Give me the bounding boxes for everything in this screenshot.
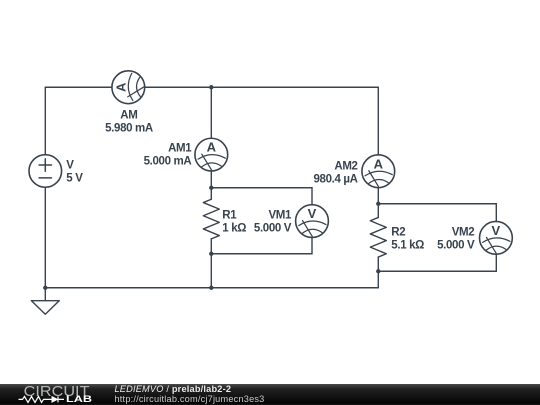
svg-text:1 kΩ: 1 kΩ — [222, 222, 246, 234]
svg-text:AM2: AM2 — [334, 160, 357, 172]
svg-text:A: A — [374, 156, 384, 171]
wire R1 top lead — [210, 188, 212, 200]
svg-text:980.4 µA: 980.4 µA — [313, 173, 357, 185]
wire VM1 loop top — [211, 188, 312, 205]
ammeter AM — [112, 71, 145, 104]
ground — [44, 288, 46, 301]
wire VM1 loop bottom — [211, 237, 312, 253]
wire R2 node to bottom rail — [377, 271, 379, 288]
svg-text:R1: R1 — [222, 209, 237, 221]
wire R1 bottom lead — [210, 239, 212, 254]
node dot below AM2 — [376, 202, 380, 206]
svg-text:A: A — [113, 82, 128, 92]
svg-text:R2: R2 — [391, 226, 405, 238]
svg-text:5.1 kΩ: 5.1 kΩ — [391, 239, 424, 251]
svg-text:AM: AM — [120, 109, 137, 121]
svg-text:5.000 V: 5.000 V — [254, 222, 292, 234]
voltmeter VM2 — [480, 221, 513, 254]
footer bar — [0, 384, 540, 405]
wire AM1 to node — [210, 171, 212, 188]
svg-text:VM2: VM2 — [452, 226, 475, 238]
wire left rail upper — [44, 87, 46, 154]
wire VM2 loop bottom — [378, 255, 496, 272]
wire R2 bottom lead — [377, 257, 379, 271]
wire node column lower — [210, 254, 212, 288]
wire bottom rail — [45, 287, 378, 289]
node dot below AM1 — [209, 186, 213, 190]
node dot R2 bottom — [376, 269, 380, 273]
svg-text:5 V: 5 V — [66, 172, 83, 184]
node dot bottom rail mid — [209, 286, 213, 290]
svg-text:A: A — [207, 140, 217, 155]
node dot R1 bottom — [209, 252, 213, 256]
svg-text:5.000 V: 5.000 V — [437, 239, 475, 251]
wire top rail right of AM — [145, 86, 379, 88]
svg-text:AM1: AM1 — [168, 142, 192, 154]
svg-text:5.980 mA: 5.980 mA — [105, 122, 153, 134]
circuitlab logo — [18, 384, 118, 405]
node dot top rail — [209, 85, 213, 89]
svg-text:V: V — [66, 159, 74, 171]
ammeter AM2 — [362, 155, 395, 188]
node dot bottom rail left — [43, 286, 47, 290]
svg-text:V: V — [492, 223, 501, 238]
svg-text:VM1: VM1 — [268, 209, 292, 221]
wire AM2 to node — [377, 188, 379, 204]
wire node column AM1 upper — [210, 87, 212, 138]
svg-text:5.000 mA: 5.000 mA — [144, 155, 192, 167]
svg-text:V: V — [308, 206, 317, 221]
voltage source V1 — [29, 155, 62, 188]
wire R2 top lead — [377, 204, 379, 218]
credit text — [115, 384, 265, 404]
wire VM2 loop top — [378, 204, 496, 222]
wire top rail left of AM — [45, 86, 112, 88]
resistor R1 — [203, 199, 219, 239]
resistor R2 — [370, 217, 386, 257]
svg-text:LAB: LAB — [66, 394, 92, 404]
wire right rail upper — [377, 87, 379, 155]
wire left rail lower — [44, 187, 46, 287]
voltmeter VM1 — [296, 205, 329, 238]
ammeter AM1 — [195, 138, 228, 171]
